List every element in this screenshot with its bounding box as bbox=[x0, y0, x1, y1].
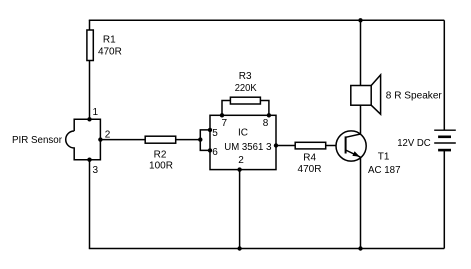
wire T1 emitter to bottom rail bbox=[360, 157, 362, 248]
svg-text:2: 2 bbox=[238, 155, 244, 166]
resistor R2 body bbox=[145, 136, 176, 143]
transistor T1 collector stroke bbox=[346, 134, 361, 137]
wire PIR pin 3 to bottom rail bbox=[89, 160, 91, 249]
svg-text:AC 187: AC 187 bbox=[368, 165, 401, 176]
wire R2 to IC bracket bbox=[176, 139, 201, 141]
junction dot PIR pin 3 bbox=[87, 158, 91, 162]
resistor R3 body bbox=[230, 97, 260, 104]
svg-text:R4: R4 bbox=[303, 152, 316, 163]
svg-text:IC: IC bbox=[238, 128, 248, 139]
wire right rail lower bbox=[443, 150, 445, 248]
resistor R4 body bbox=[295, 142, 326, 149]
svg-text:7: 7 bbox=[222, 118, 228, 129]
resistor R1 body bbox=[87, 30, 93, 61]
svg-text:8: 8 bbox=[263, 118, 269, 129]
junction dot IC pin 3 bbox=[274, 143, 278, 147]
junction dot PIR pin 2 bbox=[98, 137, 102, 141]
svg-text:2: 2 bbox=[105, 130, 111, 141]
wire top rail bbox=[89, 19, 445, 21]
svg-text:R1: R1 bbox=[103, 35, 116, 46]
svg-text:R2: R2 bbox=[154, 150, 167, 161]
wire bracket pins 5-6 bbox=[200, 130, 210, 151]
junction dot IC pin 7 bbox=[220, 113, 224, 117]
junction dot IC pin 5 bbox=[208, 128, 212, 132]
svg-text:3: 3 bbox=[266, 142, 272, 153]
svg-text:3: 3 bbox=[93, 165, 99, 176]
speaker LS1 horn bbox=[371, 75, 380, 114]
wire speaker top lead bbox=[360, 20, 362, 85]
transistor T1 emitter arrow bbox=[352, 151, 359, 156]
IC U1 body bbox=[210, 115, 276, 169]
PIR sensor body bbox=[66, 119, 101, 159]
junction dot R2 / bracket bbox=[198, 137, 202, 141]
wire R1 top lead bbox=[89, 20, 91, 30]
svg-text:UM 3561: UM 3561 bbox=[224, 142, 263, 153]
battery B1 plate short upper bbox=[438, 136, 451, 139]
junction dot IC pin 8 bbox=[267, 113, 271, 117]
svg-text:6: 6 bbox=[212, 147, 218, 158]
wire right rail upper bbox=[443, 20, 445, 130]
battery B1 plate long top bbox=[434, 129, 456, 131]
junction dot IC pin 2 bbox=[237, 167, 241, 171]
wire PIR pin 2 to R2 bbox=[100, 139, 145, 141]
wire R3 to pin 8 bbox=[260, 101, 269, 116]
wire pin 7 to R3 bbox=[222, 101, 230, 116]
wire pin 3 to R4 bbox=[276, 145, 295, 147]
battery B1 plate short bottom bbox=[438, 149, 451, 152]
svg-text:100R: 100R bbox=[149, 161, 173, 172]
junction dot IC pin 6 bbox=[208, 148, 212, 152]
wire bottom rail bbox=[89, 248, 445, 250]
wire speaker to T1 collector bbox=[360, 105, 362, 134]
wire R4 to T1 base bbox=[326, 145, 337, 147]
svg-text:12V DC: 12V DC bbox=[397, 138, 431, 149]
svg-text:470R: 470R bbox=[298, 164, 322, 175]
svg-text:8 R Speaker: 8 R Speaker bbox=[386, 91, 443, 102]
svg-text:T1: T1 bbox=[378, 152, 390, 163]
svg-text:5: 5 bbox=[212, 128, 218, 139]
junction dot top rail / speaker bbox=[358, 18, 362, 22]
wire IC pin 2 to bottom rail bbox=[239, 170, 241, 249]
transistor T1 circle bbox=[336, 131, 366, 161]
svg-text:1: 1 bbox=[93, 107, 99, 118]
transistor T1 emitter stroke bbox=[346, 150, 361, 157]
svg-text:PIR Sensor: PIR Sensor bbox=[12, 135, 63, 146]
speaker LS1 body bbox=[351, 86, 371, 106]
svg-text:R3: R3 bbox=[239, 71, 252, 82]
battery B1 plate long lower bbox=[434, 142, 456, 144]
junction dot bottom rail / IC pin 2 bbox=[237, 246, 241, 250]
junction dot bottom rail / emitter bbox=[358, 246, 362, 250]
transistor T1 base bar bbox=[345, 136, 347, 153]
svg-text:220K: 220K bbox=[235, 83, 257, 94]
svg-text:470R: 470R bbox=[98, 47, 122, 58]
junction dot PIR pin 1 bbox=[87, 117, 91, 121]
wire R1 to PIR pin 1 bbox=[89, 61, 91, 120]
